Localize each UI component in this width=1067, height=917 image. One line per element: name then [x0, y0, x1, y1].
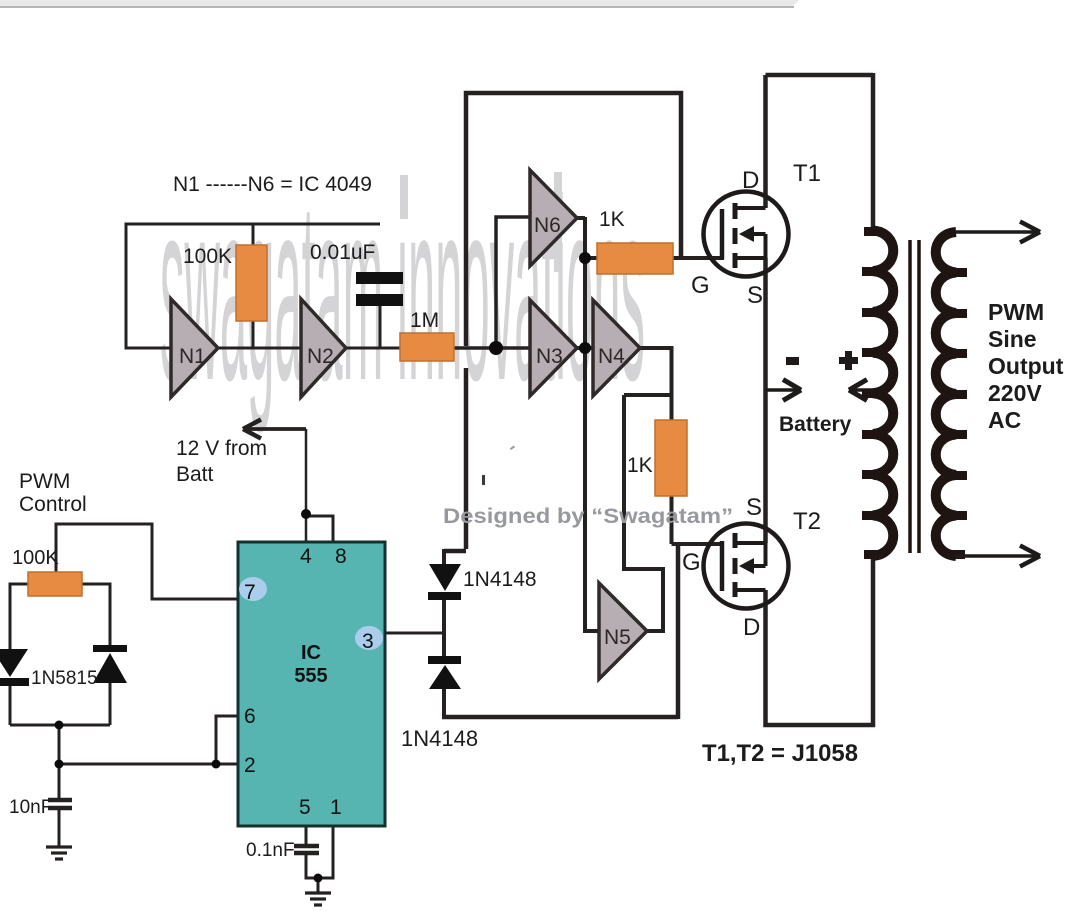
battery arrow right — [766, 388, 799, 392]
svg-text:N6: N6 — [534, 214, 561, 237]
stray mark artifact — [482, 475, 485, 485]
svg-text:4: 4 — [300, 545, 312, 568]
resistor 1K (to T1 gate) — [597, 243, 673, 274]
svg-text:PWM: PWM — [19, 470, 70, 493]
wire vertical bus N6 output down to N5 input — [585, 217, 599, 631]
diode 1N5815 right — [93, 645, 127, 652]
wire left 1N5815 bottom — [9, 684, 12, 725]
svg-text:1M: 1M — [410, 309, 439, 332]
node PWM diodes bottom — [55, 721, 64, 730]
top toolbar remnant bar — [0, 0, 799, 6]
inverter N2 — [301, 299, 346, 397]
diode 1N4148 upper — [429, 564, 461, 591]
wire below lower 1N4148 — [442, 689, 446, 717]
svg-text:1: 1 — [330, 796, 342, 819]
wire oscillator feedback loop around N1 — [126, 224, 380, 348]
svg-text:T1: T1 — [793, 160, 821, 187]
wire IC555 pin3 to 1N4148 junction — [385, 632, 444, 635]
pin3 highlight — [355, 626, 383, 650]
node pin5/pin1 ground — [314, 874, 323, 883]
wire T1 source to T2 source — [763, 258, 768, 543]
wire top rail to transformer — [766, 73, 874, 78]
wire PWM 100K left to diode — [10, 584, 28, 650]
watermark Swagatam innovations — [160, 145, 645, 435]
capacitor 10nF — [48, 800, 72, 808]
IC 555 body — [238, 542, 385, 826]
wire pin8 jog — [306, 516, 333, 542]
svg-text:S: S — [747, 282, 763, 309]
transformer secondary winding — [936, 232, 956, 556]
WIRES — [126, 224, 444, 633]
wire N3 output to N4 input — [577, 346, 593, 350]
inverter N4 — [593, 300, 640, 396]
arrowhead 12V from Batt — [243, 420, 261, 439]
svg-text:100K: 100K — [12, 547, 59, 569]
svg-text:555: 555 — [294, 665, 327, 687]
transformer primary winding — [873, 231, 893, 557]
svg-text:D: D — [742, 167, 759, 194]
svg-text:Control: Control — [19, 493, 87, 516]
node 1M/N3/N6 junction — [489, 341, 503, 355]
node N6 out / 1K — [579, 252, 591, 264]
svg-text:N4: N4 — [598, 345, 625, 368]
svg-text:Output: Output — [988, 353, 1064, 379]
inverter N1 — [171, 299, 218, 397]
wire between 1N4148 diodes — [442, 600, 446, 656]
wire T2 drain to transformer primary bottom — [766, 556, 874, 725]
svg-text:1K: 1K — [599, 208, 625, 231]
svg-text:PWM: PWM — [988, 299, 1044, 325]
wire N6 output stub — [577, 216, 585, 220]
svg-text:5: 5 — [299, 796, 311, 819]
mosfet T2 — [704, 524, 789, 609]
node 12V / pin4 — [301, 509, 311, 519]
wire IC555 pin6 jog — [216, 716, 238, 764]
svg-text:N5: N5 — [604, 626, 631, 649]
wire T1 drain up — [763, 75, 768, 208]
svg-text:Batt: Batt — [176, 463, 214, 486]
svg-text:6: 6 — [244, 705, 256, 728]
svg-text:1N5815: 1N5815 — [31, 668, 98, 689]
svg-text:Designed by “Swagatam”: Designed by “Swagatam” — [443, 505, 733, 528]
svg-text:3: 3 — [362, 630, 374, 653]
battery minus sign — [786, 357, 799, 365]
IC555 pin numbers — [244, 545, 374, 819]
svg-text:2: 2 — [244, 754, 256, 777]
svg-text:100K: 100K — [183, 245, 232, 268]
transformer core — [908, 240, 912, 553]
wire 12V supply down to pins 4,8 — [305, 429, 308, 542]
wire pin5 down to 0.1nF — [305, 826, 308, 844]
wire bottom rail diodes to T2 gate branch — [442, 715, 678, 720]
inverter N3 — [530, 300, 577, 396]
svg-text:Sine: Sine — [988, 326, 1037, 352]
wire 1K vertical bottom to T2 gate — [672, 496, 725, 544]
wire diode chain top segment — [442, 549, 446, 565]
wire 100K resistor top stub — [252, 224, 255, 246]
wire node junction up to N6 input — [496, 217, 530, 348]
wire 10nF top stub — [58, 764, 61, 798]
inverter N6 — [530, 170, 577, 266]
svg-text:D: D — [743, 614, 760, 641]
wire 100K resistor bottom stub — [252, 320, 255, 348]
wire T2 gate node down — [676, 546, 681, 719]
svg-text:IC: IC — [301, 642, 321, 664]
svg-text:N3: N3 — [536, 345, 563, 368]
wire PWM bottom rail — [10, 724, 110, 727]
svg-text:AC: AC — [988, 407, 1021, 433]
inverter N5 — [599, 583, 647, 679]
wire 10nF to ground — [58, 810, 61, 846]
resistor 100K (PWM control) — [28, 572, 82, 596]
svg-text:Battery: Battery — [779, 413, 852, 436]
wire 0.01uF capacitor bottom stub — [379, 306, 382, 348]
svg-text:G: G — [682, 549, 701, 576]
svg-text:1K: 1K — [627, 454, 653, 477]
svg-text:S: S — [746, 494, 762, 521]
wire drive box bottom jog to diodes — [444, 549, 466, 554]
wire transformer primary top lead — [871, 73, 876, 231]
svg-text:0.01uF: 0.01uF — [310, 241, 375, 264]
wire 12V arrow line — [245, 427, 306, 431]
svg-text:T2: T2 — [793, 508, 821, 535]
diode 1N5815 left — [0, 649, 28, 677]
svg-text:12 V from: 12 V from — [176, 437, 267, 460]
wire 0.1nF to ground node — [306, 826, 333, 878]
wire 1K left stub to bus — [585, 256, 597, 260]
svg-text:1N4148: 1N4148 — [401, 726, 478, 751]
diode 1N4148 lower — [428, 656, 461, 664]
wire PWM pot top to IC555 pin7 — [56, 524, 238, 599]
battery plus sign — [839, 357, 858, 364]
svg-text:N1: N1 — [179, 345, 206, 368]
wire N4 output to vertical 1K — [640, 348, 672, 420]
svg-text:7: 7 — [244, 581, 256, 604]
ground symbol under IC555 pins 5,1 — [305, 893, 331, 905]
secondary output lead top with arrow — [956, 230, 1038, 233]
wire N2 output to 1M resistor — [346, 347, 401, 350]
resistor 1M (horizontal) — [400, 333, 454, 361]
svg-text:G: G — [691, 272, 710, 299]
wire right 1N5815 bottom — [109, 683, 112, 725]
node N3 out / N4 in — [579, 342, 591, 354]
svg-text:T1,T2 = J1058: T1,T2 = J1058 — [702, 740, 858, 767]
mosfet T1 — [704, 192, 789, 277]
svg-text:220V: 220V — [988, 380, 1042, 406]
node pin6 jog — [212, 760, 221, 769]
wire PWM 100K right to diode — [82, 584, 110, 646]
secondary output lead bottom with arrow — [956, 554, 1038, 557]
wire 1K right to T1 gate — [673, 256, 724, 260]
svg-text:10nF: 10nF — [9, 797, 52, 818]
resistor 100K (oscillator, vertical) — [236, 245, 267, 321]
svg-text:0.1nF: 0.1nF — [246, 840, 295, 861]
wire left edge of drive box (with hop gap at crossing) — [466, 93, 681, 549]
wire ground stub — [317, 878, 320, 892]
resistor 1K (vertical, to T2 gate) — [655, 420, 687, 496]
ground symbol under 10nF — [46, 847, 72, 859]
svg-text:8: 8 — [335, 545, 347, 568]
svg-text:N2: N2 — [307, 345, 334, 368]
battery arrow left — [850, 388, 885, 392]
wire N5 output return loop — [624, 395, 663, 631]
wire 1M resistor to N3 input — [454, 346, 530, 350]
svg-text:N1 ------N6 = IC 4049: N1 ------N6 = IC 4049 — [173, 173, 372, 196]
wire N5 branch top horizontal — [624, 393, 672, 397]
node pin2 wire — [55, 760, 64, 769]
wire to IC555 pin2 — [59, 763, 238, 766]
capacitor 0.1nF — [294, 846, 319, 853]
wire PWM node down — [58, 725, 61, 764]
pin7 highlight — [239, 577, 267, 601]
wire N1 output to N2 input — [218, 347, 301, 350]
svg-text:1N4148: 1N4148 — [463, 568, 537, 591]
capacitor 0.01uF — [356, 272, 403, 284]
